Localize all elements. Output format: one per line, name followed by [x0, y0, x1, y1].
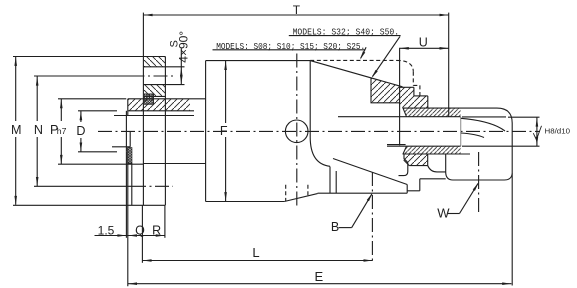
svg-text:1.5: 1.5 — [98, 223, 115, 237]
svg-text:h7: h7 — [57, 126, 67, 136]
svg-text:H8/d10: H8/d10 — [545, 127, 571, 136]
svg-text:B: B — [331, 220, 339, 234]
svg-text:M: M — [11, 123, 22, 137]
svg-text:D: D — [76, 124, 85, 138]
svg-text:E: E — [314, 269, 323, 284]
svg-text:Q: Q — [135, 224, 145, 238]
svg-text:R: R — [152, 224, 161, 238]
svg-text:N: N — [34, 123, 43, 137]
svg-text:T: T — [293, 3, 301, 17]
svg-text:4×90°: 4×90° — [176, 31, 190, 63]
svg-text:L: L — [252, 245, 259, 260]
svg-text:U: U — [419, 36, 428, 50]
svg-text:F: F — [220, 124, 228, 138]
